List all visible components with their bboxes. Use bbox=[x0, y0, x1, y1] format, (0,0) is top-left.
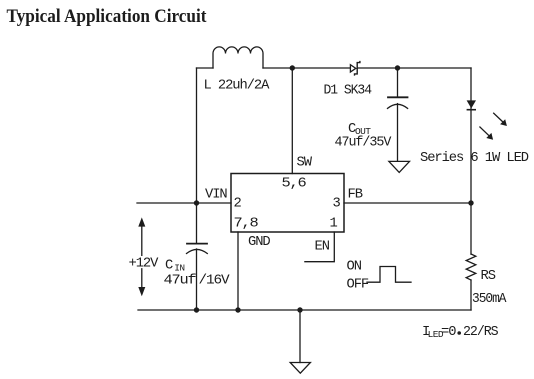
wire: LED column from FB node down to RS resistor bbox=[470, 203, 472, 254]
waveform pulse at EN ON/OFF bbox=[367, 267, 411, 283]
svg-text:GND: GND bbox=[248, 235, 270, 250]
svg-text:EN: EN bbox=[315, 240, 330, 255]
svg-text:C: C bbox=[165, 258, 173, 273]
LED D2 cathode bar bbox=[467, 109, 476, 111]
wire: top rail from diode cathode to LED column corner bbox=[357, 67, 471, 69]
svg-text:OFF: OFF bbox=[347, 278, 369, 293]
wire: left vertical from top rail down to VIN node bbox=[196, 68, 198, 203]
diode D1 triangle bbox=[350, 65, 355, 72]
capacitor CIN curved bottom plate bbox=[187, 249, 208, 253]
capacitor COUT curved bottom plate bbox=[388, 104, 408, 108]
svg-text:Typical Application Circuit: Typical Application Circuit bbox=[7, 7, 208, 27]
LED D2 filled triangle bbox=[467, 100, 476, 108]
+12V arrow upper head bbox=[138, 217, 145, 226]
svg-text:FB: FB bbox=[348, 188, 363, 203]
+12V measurement arrow shaft bbox=[141, 223, 143, 291]
svg-text:/16V: /16V bbox=[199, 273, 231, 289]
svg-text:47uf/35V: 47uf/35V bbox=[335, 135, 393, 151]
wire: FB horizontal from IC pin 3 to LED column node bbox=[344, 202, 471, 204]
svg-text:Series 6 1W LED: Series 6 1W LED bbox=[420, 150, 529, 166]
wire: CIN bottom plate to bottom rail bbox=[196, 249, 198, 310]
wire: CIN branch from VIN node down to top capacitor plate bbox=[196, 203, 198, 243]
svg-text:=0: =0 bbox=[441, 325, 456, 340]
svg-text:RS: RS bbox=[481, 269, 496, 284]
svg-text:7,8: 7,8 bbox=[234, 217, 259, 232]
svg-text:2: 2 bbox=[234, 197, 242, 212]
svg-text:+12V: +12V bbox=[129, 257, 160, 272]
diode D1 schottky cathode bar bbox=[355, 62, 360, 75]
resistor RS zigzag bbox=[466, 254, 476, 280]
svg-text:47uf: 47uf bbox=[164, 273, 197, 289]
svg-text:5,6: 5,6 bbox=[282, 177, 307, 192]
wire: COUT bottom plate down to ground symbol bbox=[397, 104, 399, 161]
LED light emission arrow 1 shaft bbox=[494, 113, 503, 122]
+12V arrow lower head bbox=[138, 287, 145, 296]
svg-text:IN: IN bbox=[174, 263, 184, 274]
svg-text:350mA: 350mA bbox=[472, 292, 507, 307]
junction node: CIN at bottom rail bbox=[194, 307, 199, 312]
junction node: CIN at VIN wire bbox=[194, 200, 199, 205]
ground symbol at bottom center bbox=[290, 363, 310, 374]
IC U1 body outline bbox=[231, 174, 344, 233]
wire: bottom rail from open left end to RS corner bbox=[138, 309, 471, 311]
junction node: COUT to top rail bbox=[395, 65, 400, 70]
wire: VIN horizontal from open left end to IC pin 2 bbox=[137, 202, 231, 204]
LED light arrow 2 head bbox=[486, 133, 493, 140]
svg-text:22/RS: 22/RS bbox=[463, 324, 498, 340]
wire: IC GND pins 7,8 down to bottom rail bbox=[237, 232, 239, 310]
junction node: FB at LED column bbox=[468, 200, 473, 205]
svg-text:SW: SW bbox=[297, 156, 313, 171]
junction node: SW to top rail bbox=[290, 65, 295, 70]
junction node: ground stub at bottom rail bbox=[297, 307, 302, 312]
wire: RS resistor bottom lead down to bottom rail bbox=[470, 280, 472, 310]
capacitor CIN top plate bbox=[187, 243, 207, 245]
svg-text:3: 3 bbox=[333, 197, 341, 212]
wire: ground stub from bottom rail down to ground symbol bbox=[299, 310, 301, 363]
svg-text:1: 1 bbox=[330, 217, 338, 232]
wire: EN pin 1 down and left open stub bbox=[305, 232, 334, 262]
capacitor COUT top plate bbox=[388, 96, 408, 98]
svg-text:VIN: VIN bbox=[205, 188, 227, 203]
svg-text:ON: ON bbox=[347, 260, 362, 275]
wire: COUT branch from top rail to top capacitor plate bbox=[397, 68, 399, 97]
svg-text:D1 SK34: D1 SK34 bbox=[324, 84, 372, 99]
wire: top rail from left corner to diode anode bbox=[197, 67, 351, 69]
LED light arrow 1 head bbox=[500, 119, 507, 126]
svg-text:L 22uh/2A: L 22uh/2A bbox=[204, 78, 271, 94]
inductor L 22uh/2A bbox=[213, 47, 263, 68]
LED light emission arrow 2 shaft bbox=[480, 127, 489, 136]
heavy decimal dot bbox=[457, 331, 461, 335]
junction node: GND pin at bottom rail bbox=[235, 307, 240, 312]
ground symbol below COUT bbox=[389, 161, 410, 172]
wire: SW pin vertical from top rail to IC top edge bbox=[291, 68, 293, 174]
wire: LED column from top rail corner through LED to FB node bbox=[470, 68, 472, 203]
